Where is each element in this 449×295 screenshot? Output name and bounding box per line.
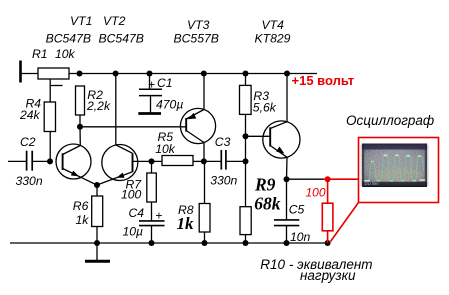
resistor R4: [44, 102, 55, 132]
resistor R3: [245, 74, 247, 86]
svg-text:10µ: 10µ: [123, 225, 144, 239]
wire R3-R9: [245, 114, 247, 206]
svg-text:R1: R1: [32, 47, 48, 61]
svg-text:BC547B: BC547B: [99, 31, 144, 45]
svg-text:100: 100: [121, 188, 142, 202]
capacitor C3: [204, 160, 221, 162]
wire top rail: [69, 73, 317, 75]
wire R6-rail: [96, 227, 98, 244]
svg-text:C1: C1: [157, 76, 173, 90]
transistor VT3: [180, 108, 215, 143]
wire R7 top: [151, 161, 153, 173]
wire C4-rail: [151, 226, 153, 243]
svg-text:KT829: KT829: [255, 31, 291, 45]
node VT4 base: [243, 133, 249, 139]
svg-text:VT2: VT2: [103, 14, 126, 28]
resistor R9: [240, 207, 251, 235]
node rail-C1: [147, 71, 153, 77]
svg-text:C4: C4: [129, 206, 145, 220]
node R10-rail: [325, 240, 331, 246]
resistor R6: [92, 196, 103, 227]
node red output: [325, 176, 331, 182]
svg-text:2,2k: 2,2k: [86, 99, 111, 113]
svg-text:330n: 330n: [210, 174, 237, 188]
wire output: [287, 178, 324, 180]
svg-text:24k: 24k: [19, 108, 41, 122]
svg-text:Осциллограф: Осциллограф: [346, 113, 434, 128]
node R5 left: [149, 158, 155, 164]
capacitor C4: [139, 220, 165, 222]
node R6-rail: [94, 240, 100, 246]
svg-text:C3: C3: [215, 135, 231, 149]
wire R4-base: [49, 132, 51, 162]
node rail-VT2: [113, 71, 119, 77]
wire VT4 base: [246, 135, 271, 137]
capacitor C5: [286, 179, 288, 220]
node emitters: [94, 182, 100, 188]
node C5-rail: [284, 240, 290, 246]
svg-text:100: 100: [306, 186, 326, 200]
resistor R10: [327, 179, 329, 203]
input terminal: [19, 61, 22, 83]
svg-text:BC547B: BC547B: [46, 31, 91, 45]
svg-text:1k: 1k: [177, 214, 195, 233]
red callout diagonal: [331, 203, 359, 242]
ground C1: [138, 112, 161, 115]
node rail-R2: [77, 71, 83, 77]
svg-text:68k: 68k: [254, 194, 280, 214]
resistor R7: [147, 173, 157, 202]
node C4-rail: [149, 240, 155, 246]
capacitor C2: [8, 160, 26, 162]
node base VT1: [47, 158, 53, 164]
oscilloscope photo: [362, 144, 427, 188]
svg-text:R9: R9: [254, 174, 276, 194]
node rail-VT4: [284, 71, 290, 77]
resistor R5: [162, 156, 193, 166]
svg-text:VT3: VT3: [187, 18, 210, 32]
wire R8 top: [204, 161, 206, 203]
svg-text:нагрузки: нагрузки: [300, 268, 356, 283]
svg-text:VT1: VT1: [70, 14, 92, 28]
node C3 right: [243, 158, 249, 164]
wire emitters-R6: [96, 185, 98, 196]
resistor R1: [38, 68, 69, 79]
oscilloscope box: [359, 138, 439, 203]
node rail-VT3: [201, 71, 207, 77]
svg-text:BC557B: BC557B: [174, 31, 219, 45]
svg-text:VT4: VT4: [262, 18, 285, 32]
svg-text:1k: 1k: [76, 213, 90, 227]
svg-text:470µ: 470µ: [156, 97, 183, 111]
resistor R2: [76, 86, 85, 115]
transistor VT1: [56, 144, 91, 179]
transistor VT4: [263, 121, 300, 158]
ground: [96, 243, 98, 261]
svg-text:C2: C2: [20, 135, 36, 149]
svg-text:5,6k: 5,6k: [253, 100, 277, 114]
transistor VT2: [102, 145, 138, 181]
svg-text:10n: 10n: [290, 230, 311, 244]
svg-text:10k: 10k: [55, 47, 76, 61]
node R9-rail: [243, 240, 249, 246]
node R5 right: [201, 158, 207, 164]
node R8-rail: [202, 240, 208, 246]
bottom rail: [10, 242, 328, 244]
svg-text:330n: 330n: [16, 174, 43, 188]
wire R9-rail: [245, 235, 247, 243]
wire to VT3 base: [80, 126, 186, 128]
wire R7-C4: [151, 202, 153, 221]
svg-text:DU film: DU film: [365, 181, 380, 186]
wire R8-rail: [204, 232, 206, 243]
node output: [284, 176, 290, 182]
node rail-R3: [243, 71, 249, 77]
svg-text:C5: C5: [289, 203, 305, 217]
svg-text:R6: R6: [73, 199, 89, 213]
capacitor C1: [149, 74, 151, 90]
wire R1 tap: [49, 79, 51, 102]
red output wire: [323, 178, 359, 180]
wire: [21, 73, 38, 75]
resistor R8: [199, 204, 210, 233]
svg-text:+15 вольт: +15 вольт: [292, 73, 355, 88]
wire R2 bottom: [79, 115, 81, 127]
svg-text:10k: 10k: [155, 142, 176, 156]
node collector VT1: [77, 124, 83, 130]
svg-text:+: +: [155, 209, 162, 223]
svg-text:+: +: [148, 78, 155, 92]
